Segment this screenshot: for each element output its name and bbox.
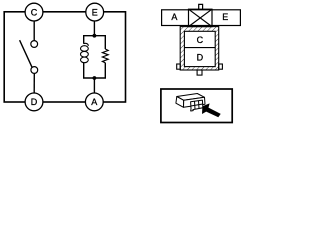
svg-text:A: A: [171, 12, 177, 22]
svg-text:D: D: [197, 53, 204, 63]
svg-text:D: D: [31, 97, 38, 107]
svg-text:E: E: [222, 12, 228, 22]
svg-text:C: C: [197, 35, 204, 45]
svg-text:C: C: [31, 7, 38, 17]
svg-text:A: A: [91, 97, 97, 107]
svg-text:E: E: [92, 7, 98, 17]
